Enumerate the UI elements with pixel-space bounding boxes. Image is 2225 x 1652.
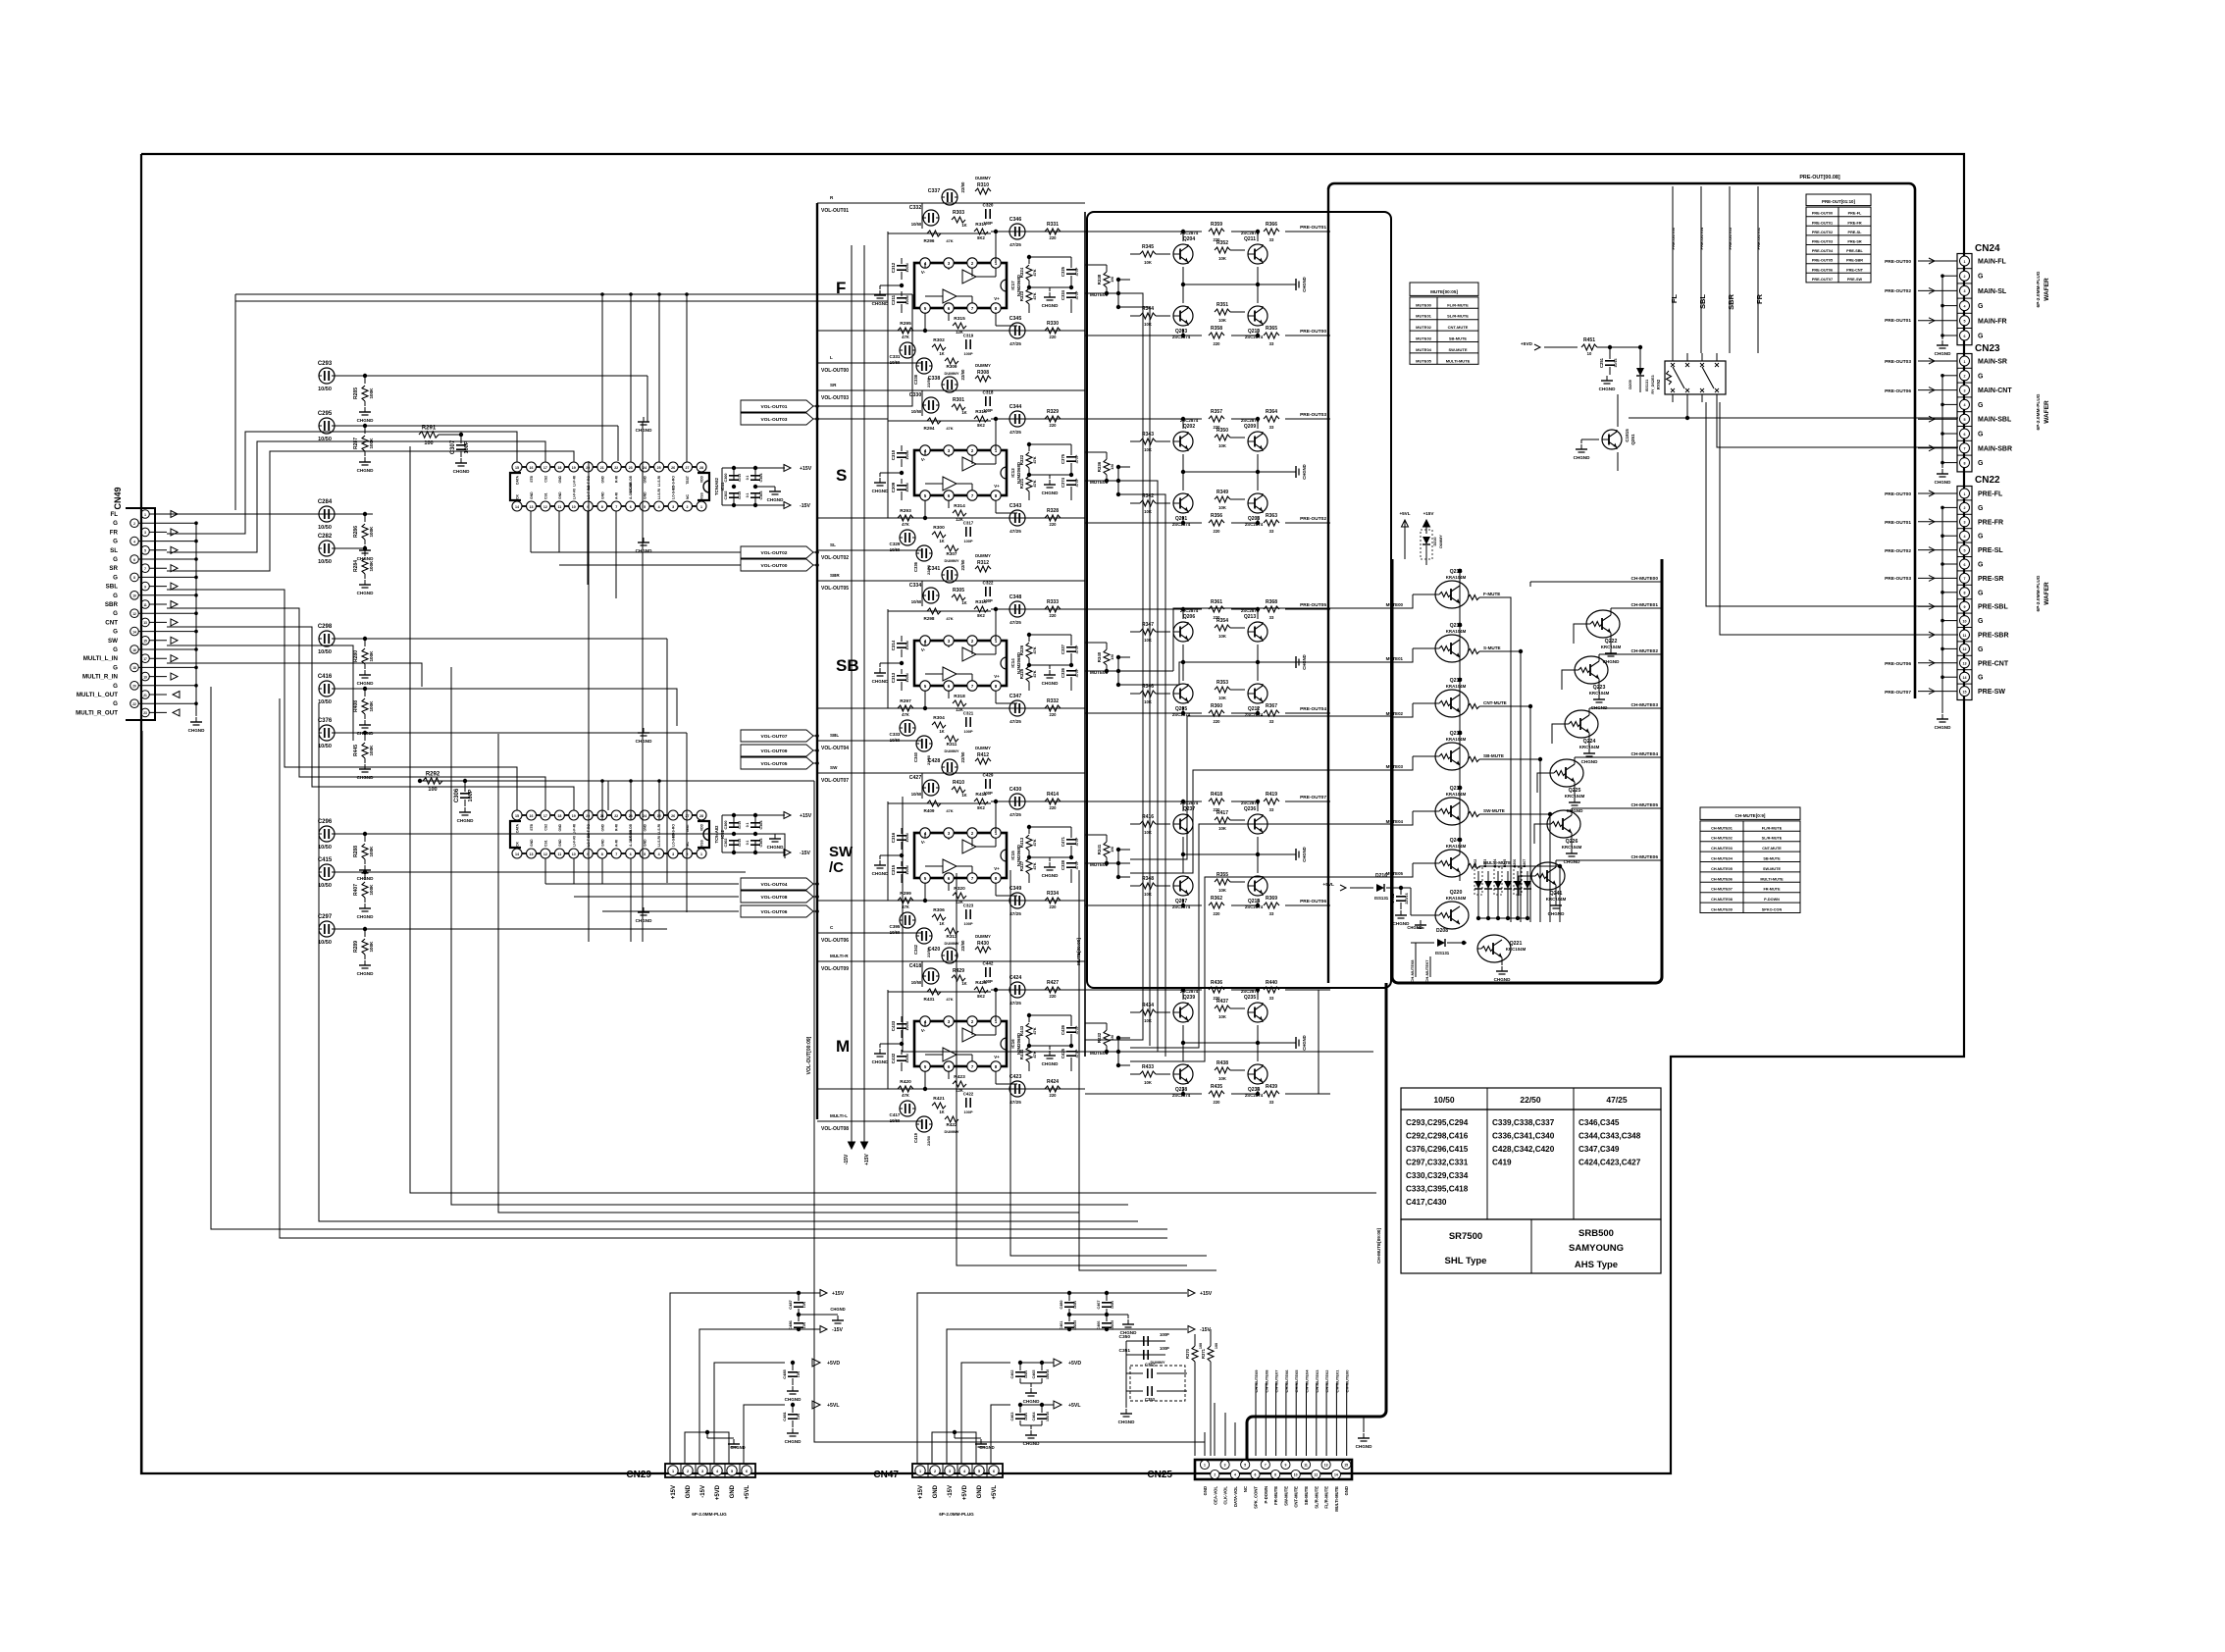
- capacitor C351 100P: [1119, 1346, 1169, 1360]
- svg-text:9: 9: [1964, 605, 1966, 609]
- svg-text:47/25: 47/25: [1606, 1095, 1628, 1105]
- svg-text:470P: 470P: [1075, 668, 1079, 677]
- svg-text:100/16: 100/16: [1046, 1369, 1050, 1379]
- svg-text:0.1: 0.1: [746, 476, 750, 481]
- capacitor C333: [890, 720, 915, 743]
- svg-text:C461: C461: [1060, 1320, 1063, 1329]
- svg-text:GND: GND: [1344, 1486, 1349, 1495]
- svg-text:CHGND: CHGND: [1302, 464, 1307, 479]
- svg-text:GND: GND: [558, 823, 562, 831]
- svg-text:DUMMY: DUMMY: [975, 934, 991, 939]
- svg-text:G: G: [113, 646, 118, 653]
- svg-text:FL: FL: [110, 511, 118, 518]
- svg-text:SW: SW: [830, 765, 838, 770]
- resistor R316: [974, 409, 988, 428]
- svg-text:R416: R416: [1142, 814, 1154, 820]
- svg-text:C323: C323: [963, 903, 974, 908]
- capacitor C423 47/25: [1009, 1074, 1025, 1105]
- svg-text:C319: C319: [963, 334, 974, 338]
- resistor R297 47K: [898, 698, 913, 717]
- svg-text:1: 1: [1964, 492, 1966, 496]
- svg-text:PRE-SW: PRE-SW: [1978, 689, 2005, 696]
- svg-text:12: 12: [1314, 1473, 1318, 1477]
- svg-text:CH-MUTE07: CH-MUTE07: [1711, 888, 1733, 892]
- svg-text:8: 8: [601, 852, 603, 856]
- svg-text:V+: V+: [994, 1055, 1000, 1059]
- svg-text:G: G: [1978, 303, 1984, 310]
- svg-text:C465: C465: [1032, 1369, 1036, 1378]
- svg-text:7: 7: [1265, 1464, 1267, 1468]
- capacitor C420: [928, 940, 965, 963]
- svg-text:C415: C415: [318, 857, 333, 863]
- svg-text:MULTI_R_OUT: MULTI_R_OUT: [76, 709, 118, 716]
- resistor R424 220: [1045, 1079, 1061, 1098]
- svg-text:21: 21: [143, 694, 147, 697]
- capacitor C295: [318, 411, 367, 442]
- svg-text:-15V: -15V: [832, 1327, 843, 1333]
- svg-text:10/50: 10/50: [318, 649, 332, 655]
- svg-text:MUTE03: MUTE03: [1416, 336, 1432, 341]
- svg-text:+5VD: +5VD: [1521, 341, 1533, 347]
- svg-text:C251: C251: [1599, 357, 1604, 368]
- svg-text:100N: 100N: [905, 263, 909, 272]
- svg-text:R343: R343: [1142, 432, 1154, 438]
- svg-text:10K: 10K: [1144, 260, 1152, 265]
- svg-text:C420: C420: [928, 947, 941, 953]
- capacitor C320: [983, 203, 994, 227]
- svg-text:0.1: 0.1: [746, 493, 750, 498]
- connector CN23: [1918, 343, 2012, 472]
- svg-text:-15V: -15V: [948, 1485, 954, 1498]
- svg-text:C316: C316: [891, 832, 896, 843]
- svg-text:10/50: 10/50: [318, 559, 332, 565]
- svg-text:100K: 100K: [369, 700, 374, 712]
- svg-text:10/16: 10/16: [1614, 358, 1618, 367]
- svg-text:PRE-OUT03: PRE-OUT03: [1300, 412, 1326, 418]
- svg-text:CH-MUTE04: CH-MUTE04: [1631, 751, 1659, 757]
- svg-text:16: 16: [132, 648, 136, 652]
- svg-text:C324: C324: [1061, 289, 1065, 300]
- svg-text:R411: R411: [975, 792, 987, 798]
- svg-text:PRE-OUT07: PRE-OUT07: [1300, 795, 1326, 800]
- svg-text:Q235: Q235: [1244, 995, 1256, 1001]
- svg-text:VOL-OUT06: VOL-OUT06: [821, 938, 849, 944]
- svg-text:100/25: 100/25: [1111, 1320, 1114, 1330]
- svg-text:47/25: 47/25: [738, 839, 742, 847]
- svg-text:2SC2874: 2SC2874: [1241, 608, 1260, 613]
- svg-text:CH-MUTE08: CH-MUTE08: [1410, 959, 1415, 983]
- svg-text:PRE-OUT04: PRE-OUT04: [1699, 227, 1704, 249]
- svg-text:R433: R433: [1142, 1064, 1154, 1070]
- svg-text:G: G: [1978, 646, 1984, 653]
- resistor R280: [353, 639, 374, 686]
- svg-text:24: 24: [643, 814, 647, 818]
- svg-text:12: 12: [543, 852, 547, 856]
- wire mute lines: [0, 0, 1, 1]
- svg-text:14: 14: [1963, 676, 1967, 680]
- svg-text:LI-S-RI: LI-S-RI: [657, 476, 661, 487]
- svg-text:4: 4: [658, 852, 660, 856]
- svg-text:A-RI: A-RI: [615, 840, 619, 847]
- resistor R298: [888, 581, 991, 621]
- resistor R284: [353, 548, 374, 595]
- svg-text:R347: R347: [1142, 622, 1154, 628]
- resistor R431: [888, 961, 991, 1002]
- svg-text:VDD: VDD: [700, 823, 704, 831]
- resistor R331: [1045, 222, 1061, 240]
- svg-text:-15V: -15V: [844, 1154, 850, 1164]
- svg-text:C333,C395,C418: C333,C395,C418: [1406, 1185, 1469, 1194]
- svg-text:470P: 470P: [1075, 290, 1079, 299]
- capacitor C338 22/50: [913, 358, 932, 387]
- capacitor C426 470P: [1061, 1015, 1079, 1048]
- svg-text:G: G: [1978, 534, 1984, 541]
- svg-text:C417: C417: [890, 1112, 901, 1117]
- svg-text:15: 15: [1963, 690, 1967, 694]
- resistor R359 220: [1209, 222, 1224, 242]
- transistor Q215 KRA104M: [1386, 569, 1501, 612]
- svg-text:CHGND: CHGND: [1023, 1441, 1041, 1446]
- capacitor C341: [928, 559, 965, 583]
- svg-text:3: 3: [1964, 521, 1966, 525]
- svg-text:MULTI-MUTE: MULTI-MUTE: [1483, 860, 1511, 865]
- node VOL-OUT06 flag: [741, 905, 819, 917]
- svg-text:DUMMY: DUMMY: [944, 749, 958, 753]
- svg-text:100P: 100P: [963, 729, 972, 734]
- svg-text:100N: 100N: [905, 865, 909, 874]
- resistor R371: [1201, 1329, 1218, 1456]
- svg-text:12K: 12K: [956, 517, 963, 522]
- channel block SB wires: [817, 573, 1085, 751]
- diode D216 ISS131: [1322, 873, 1411, 901]
- ground: [1118, 1341, 1136, 1424]
- svg-text:1K: 1K: [939, 1110, 944, 1114]
- svg-text:100N: 100N: [905, 483, 909, 491]
- svg-text:SB-MUTE: SB-MUTE: [1304, 1486, 1309, 1505]
- op-amp IC13 NJM2068D: [914, 445, 1021, 500]
- svg-text:VOL-OUT01: VOL-OUT01: [821, 208, 849, 214]
- svg-text:R429: R429: [953, 968, 964, 974]
- svg-text:MUTE05: MUTE05: [1416, 358, 1432, 363]
- node +5VL +15V: [1399, 511, 1434, 559]
- node MUTE05: [1090, 1051, 1118, 1056]
- resistor R288: [353, 834, 374, 881]
- svg-text:Q213: Q213: [1244, 614, 1256, 620]
- svg-text:C327: C327: [1061, 644, 1065, 654]
- svg-text:PRE-OUT[01:10]: PRE-OUT[01:10]: [1822, 199, 1855, 204]
- svg-text:13: 13: [530, 505, 534, 509]
- svg-text:SR: SR: [830, 383, 837, 387]
- svg-text:R301: R301: [953, 397, 964, 403]
- svg-text:CHGND: CHGND: [357, 556, 375, 561]
- svg-text:220: 220: [1214, 615, 1221, 620]
- ground bus CN23: [1935, 376, 1952, 485]
- svg-text:R341: R341: [1097, 844, 1102, 854]
- svg-text:8: 8: [1964, 461, 1966, 465]
- resistor R411: [974, 792, 988, 810]
- svg-text:47K: 47K: [902, 1093, 909, 1098]
- svg-text:33: 33: [1269, 807, 1274, 812]
- transistor Q221 KRC104M: [1477, 935, 1526, 982]
- connector CN47: [873, 1464, 1003, 1517]
- svg-text:8: 8: [133, 576, 135, 580]
- svg-text:10/50: 10/50: [890, 738, 901, 743]
- svg-text:1: 1: [1204, 1464, 1206, 1468]
- svg-text:PRE-OUT04: PRE-OUT04: [1300, 706, 1326, 712]
- capacitor C463/C464 +5VL: [991, 1401, 1081, 1464]
- svg-text:100P: 100P: [1160, 1332, 1169, 1337]
- svg-text:220: 220: [1050, 423, 1058, 428]
- table capacitor values: [1401, 1088, 1661, 1219]
- svg-text:C328: C328: [1061, 859, 1065, 870]
- svg-text:CHGND: CHGND: [457, 818, 475, 823]
- svg-text:6P-2.0MM-PLUG: 6P-2.0MM-PLUG: [939, 1512, 974, 1517]
- resistor R407: [353, 872, 374, 919]
- svg-text:CN29: CN29: [626, 1470, 651, 1480]
- svg-text:R296: R296: [924, 238, 935, 243]
- svg-text:C341: C341: [928, 566, 941, 572]
- capacitor C296: [318, 819, 367, 851]
- svg-text:47K: 47K: [946, 808, 953, 813]
- svg-text:100K: 100K: [369, 941, 374, 953]
- ground: [636, 728, 653, 744]
- pre-out cell Q237/Q207 wires: [1085, 800, 1330, 907]
- svg-text:R365: R365: [1266, 326, 1277, 332]
- svg-text:CHGND: CHGND: [979, 1445, 994, 1450]
- svg-text:C302: C302: [724, 838, 728, 847]
- capacitor C282: [318, 534, 367, 565]
- svg-text:+5VL: +5VL: [1068, 1403, 1081, 1409]
- svg-text:GND: GND: [1203, 1486, 1208, 1495]
- svg-text:C338: C338: [928, 376, 941, 382]
- svg-text:18: 18: [557, 814, 561, 818]
- svg-text:1: 1: [700, 852, 702, 856]
- pre-out cell Q206/Q205 wires: [1085, 607, 1330, 715]
- svg-text:NC: NC: [1243, 1486, 1248, 1492]
- svg-text:R314: R314: [954, 503, 965, 509]
- svg-text:R293: R293: [900, 508, 911, 514]
- svg-text:C424: C424: [1009, 975, 1022, 981]
- svg-text:KRA104M: KRA104M: [1446, 792, 1467, 797]
- svg-text:ISS131: ISS131: [1435, 951, 1450, 955]
- svg-text:C282: C282: [318, 534, 333, 540]
- svg-text:100P: 100P: [963, 351, 972, 356]
- svg-text:CEA-VOL: CEA-VOL: [1213, 1486, 1217, 1505]
- svg-text:220: 220: [1050, 904, 1058, 909]
- svg-text:VOL-OUT01: VOL-OUT01: [761, 404, 788, 410]
- svg-text:C300: C300: [724, 820, 728, 829]
- svg-text:MAIN-SBL: MAIN-SBL: [1978, 417, 2012, 424]
- capacitor C315 100N: [891, 861, 909, 883]
- svg-text:C304: C304: [759, 820, 763, 830]
- connector CN25: [1147, 1460, 1352, 1512]
- svg-text:C349: C349: [1009, 886, 1022, 892]
- svg-text:R334: R334: [1047, 891, 1059, 897]
- svg-text:C346,C345: C346,C345: [1578, 1118, 1620, 1127]
- svg-text:R439: R439: [1266, 1084, 1277, 1090]
- svg-text:4: 4: [1964, 403, 1966, 407]
- svg-text:WAFER: WAFER: [2044, 582, 2050, 605]
- svg-text:1K: 1K: [939, 729, 944, 734]
- resistor R321 47K: [1019, 476, 1037, 500]
- capacitor C324 470P: [1061, 289, 1079, 313]
- bus PRE-OUT[00.08] horizontal: [1328, 175, 1915, 189]
- svg-text:100P: 100P: [963, 1110, 972, 1114]
- svg-text:R443: R443: [1019, 1025, 1024, 1036]
- svg-text:-15V: -15V: [800, 503, 810, 509]
- ground: [1291, 464, 1307, 479]
- resistor R437 10K: [1215, 999, 1245, 1019]
- svg-text:GND: GND: [530, 491, 534, 499]
- svg-text:R-RI: R-RI: [615, 476, 619, 483]
- svg-text:SPKO-CON: SPKO-CON: [1762, 908, 1783, 912]
- svg-text:MAIN-SR: MAIN-SR: [1978, 359, 2007, 366]
- svg-text:10: 10: [1294, 1473, 1298, 1477]
- svg-text:CHGND: CHGND: [1023, 1399, 1041, 1404]
- svg-text:R299: R299: [900, 891, 911, 897]
- svg-text:13: 13: [530, 852, 534, 856]
- capacitor C337: [928, 181, 965, 205]
- svg-text:CHGND: CHGND: [1042, 873, 1060, 878]
- transistor Q209 2SC2874: [1241, 418, 1268, 451]
- svg-text:A-RI: A-RI: [615, 492, 619, 499]
- svg-text:D202: D202: [1474, 859, 1477, 868]
- svg-text:C344,C343,C348: C344,C343,C348: [1578, 1132, 1641, 1141]
- svg-text:1: 1: [1964, 360, 1966, 364]
- pre-out cell Q204/Q203 wires: [1085, 230, 1330, 337]
- svg-text:C466: C466: [1097, 1320, 1101, 1329]
- node VOL-OUT00 flag: [741, 559, 819, 571]
- svg-text:PRE-OUT07: PRE-OUT07: [1885, 690, 1911, 696]
- dummy diode D210: [1421, 522, 1443, 565]
- node VOL-OUT09 flag: [741, 745, 819, 756]
- svg-text:VOL-OUT05: VOL-OUT05: [761, 761, 788, 767]
- svg-text:22/50: 22/50: [960, 559, 965, 571]
- svg-text:CH-MUTE03: CH-MUTE03: [1631, 702, 1659, 708]
- svg-text:R434: R434: [1142, 1003, 1154, 1008]
- svg-text:18: 18: [557, 466, 561, 470]
- svg-text:R309: R309: [947, 364, 957, 369]
- svg-text:2SC2874: 2SC2874: [1172, 335, 1191, 339]
- svg-text:CNT-MUTE: CNT-MUTE: [1448, 325, 1469, 330]
- ground bus CN24: [1935, 276, 1952, 356]
- svg-text:C433: C433: [891, 1020, 896, 1031]
- svg-text:R435: R435: [1211, 1084, 1222, 1090]
- svg-text:4: 4: [1234, 1473, 1236, 1477]
- svg-text:47K: 47K: [902, 904, 909, 909]
- svg-text:47K: 47K: [1032, 1051, 1037, 1058]
- svg-text:C331: C331: [890, 354, 901, 359]
- svg-text:MUTE02: MUTE02: [1416, 325, 1432, 330]
- connector CN49: [76, 487, 205, 733]
- svg-text:D216: D216: [1375, 873, 1387, 879]
- resistor R332 220: [1045, 698, 1061, 717]
- svg-text:6: 6: [993, 1470, 995, 1473]
- svg-text:R348: R348: [1142, 876, 1154, 882]
- svg-text:R445: R445: [353, 745, 359, 756]
- svg-text:+5VL: +5VL: [1399, 511, 1410, 516]
- resistor R318: [953, 694, 966, 712]
- svg-text:33: 33: [1269, 425, 1274, 430]
- svg-text:LI-F-RI: LI-F-RI: [572, 476, 576, 487]
- svg-text:R302: R302: [933, 337, 945, 343]
- svg-text:SHL Type: SHL Type: [1445, 1256, 1487, 1266]
- svg-text:7: 7: [144, 567, 146, 571]
- svg-text:CHGND: CHGND: [1935, 725, 1952, 730]
- svg-text:CHGND: CHGND: [1935, 351, 1952, 356]
- svg-text:100N: 100N: [1024, 1369, 1028, 1378]
- svg-text:47/25: 47/25: [738, 474, 742, 482]
- svg-text:R312: R312: [977, 560, 989, 566]
- svg-text:220: 220: [1214, 341, 1221, 346]
- svg-text:10: 10: [1587, 351, 1592, 356]
- svg-text:LI-S-RI: LI-S-RI: [657, 489, 661, 499]
- ground: [1029, 665, 1071, 686]
- op-amp IC14 NJM2068D: [914, 636, 1021, 691]
- svg-text:R338: R338: [1097, 274, 1102, 284]
- svg-text:PRE-OUT00: PRE-OUT00: [1885, 259, 1911, 265]
- capacitor C345 47/25: [1009, 316, 1025, 346]
- svg-text:CHGND: CHGND: [1042, 1061, 1060, 1066]
- node VOL-OUT08 flag: [741, 891, 819, 903]
- svg-text:CN25: CN25: [1147, 1470, 1172, 1480]
- svg-text:PRE-OUT05: PRE-OUT05: [1300, 602, 1326, 608]
- svg-text:PRE-FR: PRE-FR: [1847, 221, 1861, 225]
- svg-text:C376: C376: [318, 718, 333, 724]
- resistor R312 dummy: [975, 553, 991, 572]
- svg-text:47K: 47K: [1032, 480, 1037, 487]
- svg-text:C333: C333: [890, 732, 901, 737]
- svg-text:CNT-MUTE: CNT-MUTE: [1762, 847, 1782, 851]
- ground: [1291, 847, 1307, 861]
- resistor R323 47K: [1019, 288, 1037, 313]
- svg-text:33: 33: [1269, 615, 1274, 620]
- svg-text:DUMMY: DUMMY: [944, 1129, 958, 1134]
- svg-text:MAIN-CNT: MAIN-CNT: [1978, 387, 2012, 394]
- svg-text:CN23: CN23: [1975, 343, 2000, 354]
- svg-text:+15V: +15V: [800, 813, 812, 819]
- svg-text:R428: R428: [975, 980, 987, 986]
- capacitor C424 47/25: [1009, 975, 1025, 1006]
- svg-text:LI-F-RI: LI-F-RI: [572, 489, 576, 499]
- transistor Q220 KRA104M: [1407, 888, 1469, 930]
- svg-text:CHGND: CHGND: [872, 489, 890, 493]
- resistor R370: [1185, 1334, 1203, 1456]
- wire CN47 gnd: [932, 1430, 995, 1464]
- svg-text:C347,C349: C347,C349: [1578, 1145, 1620, 1154]
- capacitor C433 100N: [891, 1016, 909, 1038]
- svg-text:C322: C322: [983, 581, 994, 586]
- capacitor C418: [909, 963, 939, 985]
- svg-text:C296: C296: [318, 819, 333, 825]
- svg-text:C332: C332: [909, 205, 922, 211]
- transistor Q214 2SC2874: [1245, 876, 1268, 909]
- svg-text:R285: R285: [353, 387, 359, 399]
- svg-text:R418: R418: [1211, 792, 1222, 798]
- svg-text:10/50: 10/50: [890, 1118, 901, 1123]
- svg-text:100P: 100P: [963, 539, 972, 543]
- svg-text:PRE-SL: PRE-SL: [1848, 231, 1863, 234]
- svg-text:C334: C334: [909, 583, 922, 589]
- svg-text:NC: NC: [686, 494, 690, 499]
- wire FL/SBL/SBR/FR feeds: [1670, 186, 1764, 353]
- resistor R351 10K: [1215, 302, 1245, 323]
- svg-text:100N: 100N: [905, 295, 909, 304]
- svg-text:VSS: VSS: [700, 839, 704, 847]
- svg-text:R287: R287: [353, 438, 359, 449]
- capacitor C415: [318, 857, 367, 889]
- svg-text:Q239: Q239: [1183, 995, 1195, 1001]
